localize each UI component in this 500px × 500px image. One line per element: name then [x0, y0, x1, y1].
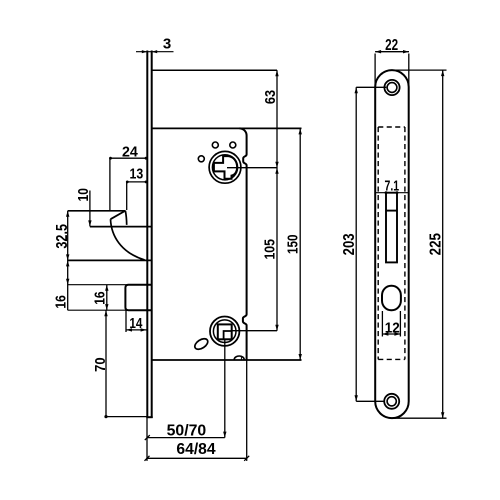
dimension 16 inner arrow bottom — [105, 304, 108, 310]
dimension 63 arrow top — [275, 70, 278, 76]
case top edge with extension to 150-dim — [152, 127, 302, 129]
dimension 225 arrow top — [441, 70, 444, 76]
bottom follower vertical extension to 50/70 — [224, 339, 226, 437]
deadbolt body — [125, 285, 151, 311]
chain arrow at 260 up — [66, 260, 69, 266]
dashed case pocket right — [404, 127, 406, 359]
latch bevel diagonal — [111, 211, 126, 220]
dimension 50/70 tick left — [145, 435, 150, 440]
latch slot divider — [386, 210, 397, 212]
dimension 12 extension left — [381, 311, 383, 337]
dimension 22 arrow left — [375, 50, 381, 53]
dimension 10 arrow — [88, 220, 91, 226]
dimension 22 arrow right — [403, 50, 409, 53]
svg-text:16: 16 — [91, 291, 108, 305]
chain arrow at 284 down — [66, 279, 69, 285]
svg-text:64/84: 64/84 — [176, 441, 215, 458]
latch bolt top edge — [68, 210, 126, 212]
dimension 225 line — [442, 70, 444, 418]
svg-text:225: 225 — [427, 233, 444, 255]
dimension 63 line — [276, 70, 278, 128]
dimension 70 line — [105, 310, 107, 416]
dimension 14 arrow right — [141, 328, 147, 331]
case right edge with two screw notches — [243, 136, 247, 361]
dashed case pocket top — [378, 126, 405, 128]
dimension 203 extension top — [356, 86, 386, 88]
case bottom notch tick — [240, 357, 242, 360]
svg-text:32.5: 32.5 — [54, 224, 72, 249]
dimension 105 arrow top — [275, 168, 278, 174]
latch slot — [386, 193, 397, 263]
dimension 13 dot right — [145, 181, 148, 184]
faceplate bottom extension line — [106, 416, 147, 418]
dimension 3 (faceplate thickness) line — [136, 51, 174, 53]
svg-text:16: 16 — [52, 295, 69, 309]
chain arrow at 260 down — [66, 254, 69, 260]
latch guide line C — [68, 259, 152, 261]
dimension 50/70 line — [147, 437, 225, 439]
top screw hole inner — [387, 83, 397, 93]
faceplate right edge — [151, 51, 153, 419]
faceplate left edge — [146, 51, 148, 419]
dimension 105 line — [276, 128, 278, 330]
dimension 24 dot right — [145, 157, 148, 160]
top follower inner ring — [212, 155, 237, 180]
svg-text:13: 13 — [130, 165, 144, 181]
dimension 24 line — [110, 157, 147, 159]
dimension 22 line — [375, 51, 409, 53]
dimension 105 arrow bottom — [275, 325, 278, 331]
dimension 14 line — [126, 329, 147, 331]
dimension 22 extension left — [374, 54, 376, 88]
svg-text:12: 12 — [385, 320, 400, 337]
dimension 64/84 tick right — [244, 456, 249, 461]
dimension 150 arrow top — [299, 128, 302, 134]
small hole circle b — [230, 142, 236, 148]
dimension 50/70 arrow right — [223, 432, 226, 438]
left chain dimension column — [67, 211, 69, 310]
dimension 13 extension — [126, 182, 128, 210]
top follower axis line — [227, 167, 277, 169]
dimension 7.1 dot left — [385, 191, 388, 194]
svg-text:150: 150 — [284, 234, 301, 254]
dimension 203 extension bottom — [356, 400, 384, 402]
svg-text:63: 63 — [261, 90, 278, 104]
dimension 203 line — [355, 87, 357, 401]
dimension 24 extension — [109, 158, 111, 210]
dimension 13 dot left — [126, 181, 129, 184]
dimension 203 arrow top — [355, 87, 358, 93]
svg-text:10: 10 — [75, 188, 92, 201]
dimension 150 arrow bottom — [299, 354, 302, 360]
svg-text:50/70: 50/70 — [167, 423, 207, 440]
small hole circle a — [212, 142, 218, 148]
dimension 64/84 tick left — [145, 456, 150, 461]
dimension 225 extension bottom — [392, 417, 447, 419]
dashed case pocket bottom — [378, 358, 405, 360]
dimension 16 inner line — [106, 285, 108, 310]
dimension 12 extension right — [399, 311, 401, 337]
bottom screw hole inner — [387, 397, 396, 406]
bottom follower outer circle — [210, 317, 239, 346]
case top-right rounded corner — [240, 128, 247, 135]
chain arrow at 211 up — [66, 211, 69, 217]
svg-text:22: 22 — [385, 35, 398, 53]
dashed case pocket left — [377, 127, 379, 359]
case bottom edge screw notch bump — [234, 356, 244, 360]
dimension 16 inner arrow top — [105, 285, 108, 291]
svg-text:3: 3 — [163, 35, 171, 52]
tilted screw slot — [193, 337, 210, 352]
faceplate top reference line (top of case) — [152, 69, 277, 71]
deadbolt top extension line — [68, 284, 127, 286]
dimension 70 end dot — [104, 415, 107, 418]
top follower nut profile — [214, 156, 237, 179]
case bottom edge with extension to 150-dim — [152, 359, 302, 361]
dimension 150 line — [299, 128, 301, 360]
dimension 12 line — [382, 333, 400, 335]
dimension 225 extension top — [392, 69, 447, 71]
dimension 64/84 line — [147, 457, 247, 459]
bottom follower small square — [224, 331, 232, 339]
dimension 7.1 dot right — [396, 191, 399, 194]
bottom follower inner ring — [213, 320, 236, 343]
svg-text:14: 14 — [129, 315, 142, 332]
svg-text:203: 203 — [341, 233, 358, 255]
dimension 13 line — [127, 181, 147, 183]
bottom follower axis line — [232, 330, 277, 332]
dimension 3 arrow left — [142, 50, 148, 53]
bottom screw hole outer — [384, 394, 399, 409]
dimension 14 arrow left — [126, 328, 132, 331]
dimension 203 arrow bottom — [355, 395, 358, 401]
dimension 10 line — [89, 191, 91, 227]
faceplate extension to 64/84 — [146, 418, 148, 461]
dimension 14 extension — [125, 310, 127, 332]
dimension 24 dot left — [109, 157, 112, 160]
bottom follower big square — [218, 324, 232, 339]
dimension 3 arrow right — [152, 50, 158, 53]
front plate outline — [375, 70, 409, 418]
top screw hole outer — [384, 80, 399, 95]
dimension 70 arrow top — [104, 310, 107, 316]
deadbolt bottom extension line — [68, 309, 147, 311]
svg-text:7.1: 7.1 — [385, 177, 400, 194]
case edge extension to 64/84 — [246, 360, 248, 461]
svg-text:70: 70 — [91, 357, 108, 372]
dimension 22 extension right — [408, 54, 410, 88]
latch bevel arc — [111, 219, 145, 260]
deadbolt hole — [382, 286, 401, 310]
dimension 12 arrow left — [382, 332, 388, 335]
dimension 12 arrow right — [394, 332, 400, 335]
dimension 225 arrow bottom — [441, 412, 444, 418]
dimension 63 arrow bottom — [275, 162, 278, 168]
faceplate bottom edge — [146, 416, 152, 418]
svg-text:105: 105 — [261, 239, 277, 260]
dimension 7.1 line — [375, 192, 409, 194]
svg-text:24: 24 — [122, 144, 139, 160]
latch bolt bottom edge — [90, 226, 152, 228]
top follower outer circle — [209, 151, 241, 183]
small hole circle c — [198, 156, 204, 162]
latch bevel front edge — [125, 211, 126, 225]
